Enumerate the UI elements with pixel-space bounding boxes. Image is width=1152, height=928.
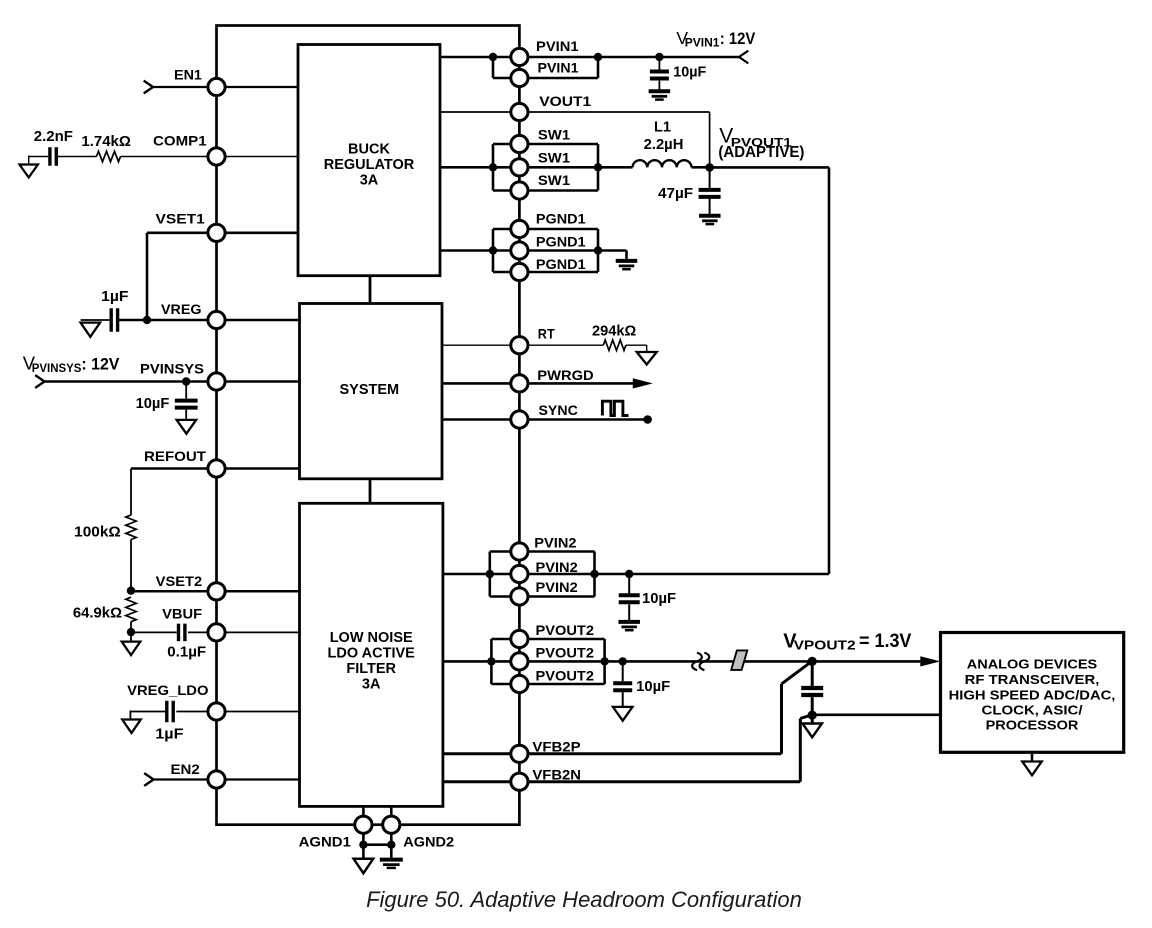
svg-text:2.2µH: 2.2µH — [644, 137, 684, 153]
svg-text:VFB2N: VFB2N — [532, 767, 581, 783]
svg-text:PGND1: PGND1 — [536, 234, 586, 250]
svg-text:: 12V: : 12V — [81, 354, 120, 373]
svg-text:COMP1: COMP1 — [153, 133, 207, 149]
svg-text:VSET1: VSET1 — [156, 211, 206, 227]
svg-text:AGND1: AGND1 — [299, 833, 352, 849]
svg-text:3A: 3A — [362, 677, 381, 693]
svg-text:1.74kΩ: 1.74kΩ — [81, 134, 131, 150]
svg-text:VREG_LDO: VREG_LDO — [127, 682, 209, 698]
svg-text:PVIN1: PVIN1 — [685, 37, 720, 49]
svg-text:RF TRANSCEIVER,: RF TRANSCEIVER, — [965, 672, 1100, 687]
svg-text:Figure 50. Adaptive Headroom C: Figure 50. Adaptive Headroom Configurati… — [366, 887, 802, 912]
svg-text:= 1.3V: = 1.3V — [859, 630, 911, 652]
svg-text:0.1µF: 0.1µF — [167, 645, 206, 661]
svg-text:10µF: 10µF — [636, 679, 670, 695]
svg-text:SW1: SW1 — [538, 150, 570, 166]
svg-text:VBUF: VBUF — [162, 606, 203, 622]
svg-text:PVOUT2: PVOUT2 — [536, 668, 595, 684]
svg-text:VOUT1: VOUT1 — [539, 93, 591, 109]
svg-text:294kΩ: 294kΩ — [592, 324, 637, 340]
svg-text:LDO ACTIVE: LDO ACTIVE — [328, 646, 416, 662]
svg-text:: 12V: : 12V — [720, 30, 756, 48]
svg-text:SYNC: SYNC — [539, 402, 578, 418]
svg-text:FILTER: FILTER — [346, 661, 396, 677]
svg-text:VPOUT2: VPOUT2 — [794, 639, 856, 653]
svg-text:ANALOG DEVICES: ANALOG DEVICES — [967, 657, 1098, 672]
svg-text:3A: 3A — [360, 172, 379, 188]
svg-text:PVINSYS: PVINSYS — [32, 363, 82, 375]
svg-text:SYSTEM: SYSTEM — [339, 382, 399, 398]
svg-text:BUCK: BUCK — [348, 141, 390, 157]
svg-text:LOW NOISE: LOW NOISE — [330, 630, 413, 646]
svg-text:1µF: 1µF — [101, 289, 128, 305]
svg-text:SW1: SW1 — [538, 172, 570, 188]
svg-text:PVOUT2: PVOUT2 — [536, 645, 595, 661]
svg-text:PVINSYS: PVINSYS — [140, 361, 204, 377]
svg-text:1µF: 1µF — [155, 727, 183, 743]
svg-text:10µF: 10µF — [642, 591, 676, 607]
svg-text:REGULATOR: REGULATOR — [324, 157, 415, 173]
svg-text:EN1: EN1 — [174, 67, 202, 83]
svg-text:CLOCK, ASIC/: CLOCK, ASIC/ — [982, 703, 1083, 718]
svg-text:10µF: 10µF — [136, 396, 170, 412]
svg-text:HIGH SPEED ADC/DAC,: HIGH SPEED ADC/DAC, — [949, 687, 1116, 702]
svg-text:2.2nF: 2.2nF — [34, 128, 73, 145]
svg-text:EN2: EN2 — [171, 761, 201, 777]
svg-text:AGND2: AGND2 — [403, 833, 454, 849]
svg-text:PVIN2: PVIN2 — [534, 535, 576, 551]
svg-text:47µF: 47µF — [658, 186, 693, 202]
svg-text:(ADAPTIVE): (ADAPTIVE) — [718, 144, 804, 161]
svg-text:PVIN1: PVIN1 — [536, 38, 579, 54]
svg-text:PGND1: PGND1 — [536, 211, 586, 227]
svg-text:PVIN2: PVIN2 — [536, 579, 578, 595]
svg-text:PVIN1: PVIN1 — [538, 60, 579, 76]
svg-text:100kΩ: 100kΩ — [74, 525, 121, 541]
svg-text:10µF: 10µF — [673, 65, 706, 81]
svg-text:RT: RT — [538, 326, 555, 342]
svg-text:REFOUT: REFOUT — [144, 448, 206, 464]
svg-text:PVIN2: PVIN2 — [536, 559, 578, 575]
svg-text:PWRGD: PWRGD — [537, 367, 593, 383]
svg-text:PVOUT2: PVOUT2 — [536, 622, 595, 638]
svg-text:VREG: VREG — [161, 301, 202, 317]
svg-text:PROCESSOR: PROCESSOR — [986, 718, 1079, 733]
svg-text:L1: L1 — [654, 120, 671, 136]
svg-text:PGND1: PGND1 — [536, 256, 586, 272]
svg-text:SW1: SW1 — [538, 127, 570, 143]
svg-text:VFB2P: VFB2P — [532, 739, 580, 755]
svg-text:64.9kΩ: 64.9kΩ — [73, 606, 122, 622]
svg-text:VSET2: VSET2 — [156, 573, 203, 589]
